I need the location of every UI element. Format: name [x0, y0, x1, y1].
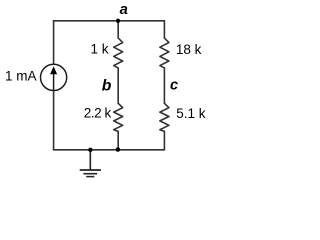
wire left lower (current source down to bottom corner) [53, 91, 55, 150]
wire top from left corner to right corner [54, 20, 165, 22]
resistor 2.2 k [114, 103, 123, 131]
wire right branch upper lead [163, 21, 165, 38]
svg-text:1 mA: 1 mA [5, 69, 37, 84]
node a junction dot [116, 19, 120, 23]
svg-text:5.1 k: 5.1 k [176, 106, 206, 121]
svg-text:18 k: 18 k [176, 42, 202, 57]
current source 1 mA [41, 64, 67, 90]
ground [80, 150, 101, 177]
svg-text:c: c [170, 77, 178, 93]
resistor 1 k [114, 38, 123, 68]
wire middle branch between resistors [117, 68, 119, 103]
wire bottom from left corner to right corner [54, 149, 165, 151]
resistor 18 k [160, 38, 169, 68]
wire middle branch lower lead [117, 131, 119, 149]
junction dot middle branch to bottom wire [116, 147, 121, 152]
wire right branch between resistors [163, 68, 165, 103]
svg-text:2.2 k: 2.2 k [84, 106, 112, 121]
svg-text:a: a [120, 2, 128, 18]
svg-text:1 k: 1 k [90, 42, 108, 57]
svg-text:b: b [102, 78, 112, 95]
wire middle branch upper lead [117, 21, 119, 38]
junction dot ground to bottom wire [88, 148, 92, 152]
resistor 5.1 k [160, 103, 169, 131]
wire right branch lower lead [163, 131, 165, 149]
wire left upper (top corner down to current source) [53, 21, 55, 65]
